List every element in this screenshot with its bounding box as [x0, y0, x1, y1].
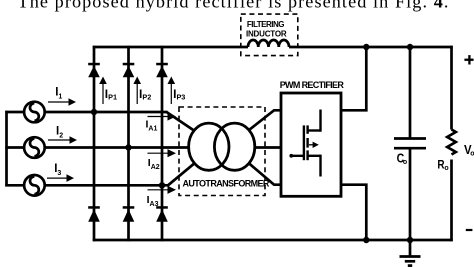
wire source stubs	[5, 111, 24, 114]
svg-text:INDUCTOR: INDUCTOR	[246, 29, 287, 38]
wire capacitor column bottom	[409, 148, 412, 240]
capacitor Co plates	[394, 137, 426, 140]
svg-text:o: o	[444, 165, 448, 172]
wire phase 2 right segment	[256, 146, 282, 149]
junction node phase3/leg3	[159, 182, 165, 188]
PWM rectifier box	[281, 93, 341, 196]
arrow I1	[48, 98, 76, 106]
wire right output column bottom	[450, 160, 453, 242]
svg-text:o: o	[470, 151, 474, 158]
AC source G1	[24, 102, 45, 123]
AC source G3	[24, 175, 45, 196]
wire autotransformer out top diagonal	[249, 110, 281, 129]
diode D2 top	[123, 63, 135, 77]
wire phase 3	[45, 184, 169, 187]
autotransformer winding left	[189, 123, 229, 170]
wire diode leg 2	[127, 46, 130, 241]
diode D6 bottom	[156, 206, 168, 222]
svg-text:IA1: IA1	[146, 118, 158, 132]
wire diode leg 3	[161, 46, 164, 241]
junction node phase2/leg2	[125, 144, 131, 150]
filtering inductor L	[248, 40, 289, 47]
wire top rail right of inductor	[289, 46, 453, 49]
svg-text:The proposed hybrid rectifier: The proposed hybrid rectifier is present…	[18, 0, 450, 11]
filtering inductor dashed box	[241, 14, 298, 56]
wire right output column top	[450, 46, 453, 130]
wire top rail left of inductor	[93, 46, 248, 49]
diode D4 bottom	[88, 206, 100, 222]
svg-text:AUTOTRANSFORMER: AUTOTRANSFORMER	[183, 179, 270, 189]
wire phase 3 diagonal	[168, 164, 194, 186]
AC source G2	[24, 137, 45, 158]
resistor Ro zigzag	[447, 130, 456, 155]
diode D5 bottom	[123, 206, 135, 222]
arrow IP2	[133, 77, 141, 105]
arrow IA2	[148, 149, 177, 157]
junction node bottom rail / PWM	[363, 237, 369, 243]
label plus	[464, 55, 473, 64]
wire bottom rail	[93, 239, 453, 242]
svg-text:o: o	[403, 159, 407, 166]
junction node top rail / capacitor	[407, 44, 413, 50]
svg-text:IA2: IA2	[148, 157, 160, 171]
diode D1 top	[88, 63, 100, 77]
svg-text:I3: I3	[54, 163, 61, 177]
label minus	[466, 229, 473, 231]
arrow I2	[48, 136, 77, 144]
junction node top rail / PWM	[363, 44, 369, 50]
MOSFET Q1	[292, 110, 321, 177]
arrow IA3	[148, 186, 177, 194]
wire phase 1	[45, 111, 168, 114]
wire left source bus	[5, 111, 8, 187]
arrow IP1	[99, 77, 107, 105]
svg-text:IP1: IP1	[105, 87, 117, 102]
wire PWM bottom connection	[341, 185, 366, 240]
autotransformer winding right	[214, 123, 254, 170]
wire PWM top connection	[341, 47, 366, 110]
arrow IA1	[148, 112, 177, 120]
wire diode leg 1	[93, 46, 96, 241]
ground bars	[400, 255, 421, 258]
arrow I3	[47, 174, 74, 182]
wire capacitor column top	[409, 46, 412, 139]
wire phase 1 diagonal	[167, 112, 195, 131]
svg-text:I1: I1	[55, 86, 62, 100]
MOSFET gate terminal dot	[289, 154, 293, 158]
arrow IP3	[168, 77, 176, 105]
svg-text:IA3: IA3	[147, 194, 159, 208]
svg-text:IP3: IP3	[173, 87, 185, 102]
wire phase 2	[45, 146, 188, 149]
svg-text:PWM RECTIFIER: PWM RECTIFIER	[280, 80, 345, 90]
wire autotransformer out bottom diagonal	[249, 164, 281, 185]
junction node phase1/leg1	[91, 109, 97, 115]
svg-text:FILTERING: FILTERING	[247, 20, 284, 29]
junction node bottom rail / ground	[407, 237, 413, 243]
ground stub	[409, 240, 412, 257]
svg-text:I2: I2	[56, 125, 63, 139]
MOSFET arrow	[309, 142, 319, 148]
autotransformer dashed box	[179, 107, 265, 196]
diode D3 top	[156, 63, 168, 77]
svg-text:IP2: IP2	[139, 87, 151, 102]
